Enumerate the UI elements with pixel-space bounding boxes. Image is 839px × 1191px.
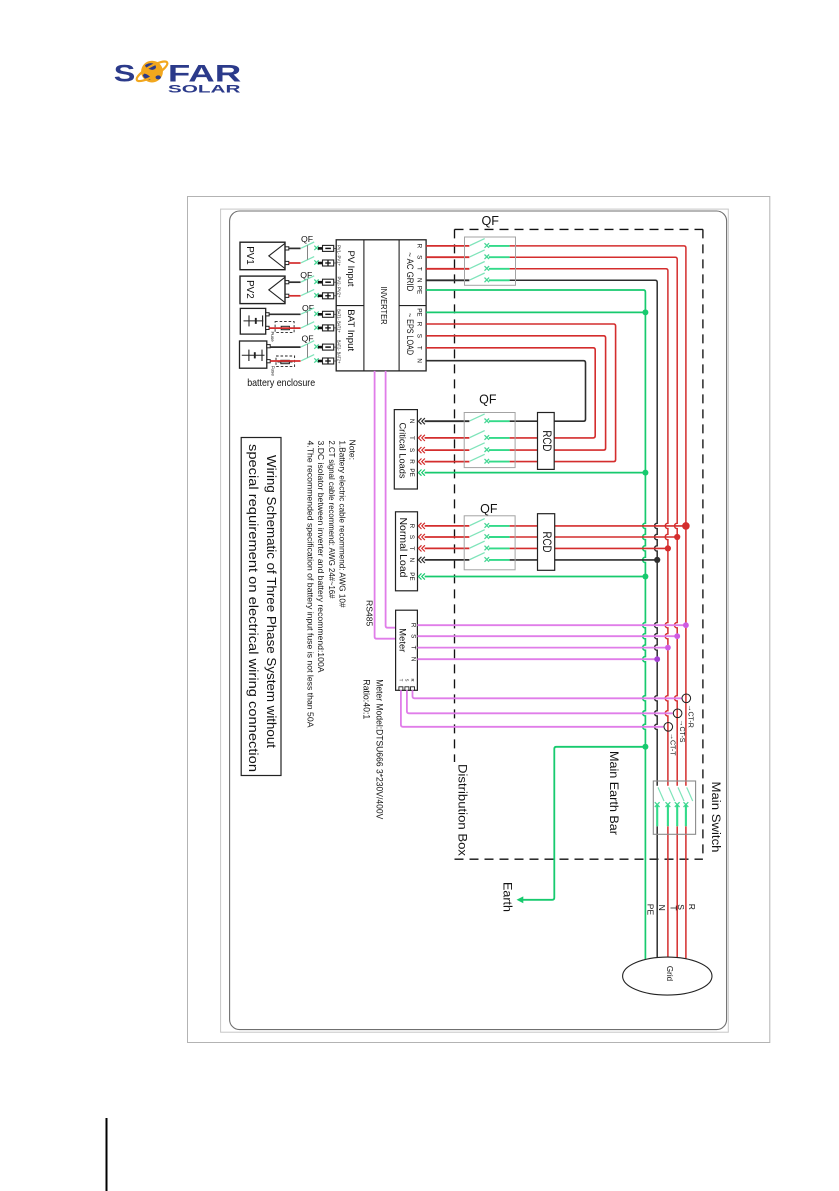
svg-text:Grid: Grid [665, 966, 674, 981]
junction normal N [654, 557, 660, 563]
wire N breaker to grid bus [510, 280, 658, 957]
svg-text:R: R [416, 244, 423, 249]
svg-text:PV1- PV1+: PV1- PV1+ [337, 245, 342, 266]
drawing rounded border [230, 211, 727, 1030]
wire T breaker to grid bus [510, 269, 668, 957]
wire normal R to grid bus [510, 525, 686, 527]
junction normal T [665, 545, 671, 551]
svg-text:PV2- PV2+: PV2- PV2+ [337, 277, 342, 298]
svg-text:1.Battery electric cable recom: 1.Battery electric cable recommend: AWG … [337, 441, 347, 608]
wire normal S to grid bus [510, 536, 678, 538]
PV panel PV1 [240, 242, 285, 270]
meter box [396, 610, 418, 690]
wire normal T to grid bus [510, 547, 668, 549]
grid wire labels R S T N PE [646, 904, 697, 916]
main switch box [653, 781, 695, 834]
terminal BAT2- [318, 344, 336, 350]
svg-text:→CT-S: →CT-S [678, 720, 685, 743]
svg-text:R: R [410, 623, 417, 628]
terminal PV1- [318, 245, 336, 251]
svg-text:Ratio:40:1: Ratio:40:1 [361, 679, 371, 719]
svg-text:Distribution Box: Distribution Box [456, 764, 468, 856]
svg-text:R: R [410, 678, 415, 681]
junction normal R [682, 522, 690, 530]
wire RS485 B [375, 371, 396, 639]
svg-text:Fuse: Fuse [270, 332, 275, 343]
svg-text:Meter: Meter [397, 628, 408, 652]
svg-text:BAT Input: BAT Input [345, 309, 356, 351]
svg-text:Meter Model:DTSU666 3*230V/400: Meter Model:DTSU666 3*230V/400V [374, 679, 384, 819]
svg-text:PV2: PV2 [244, 280, 255, 299]
svg-text:2.CT signal cable recommend: A: 2.CT signal cable recommend: AWG 24#~16# [327, 441, 337, 599]
terminal PV1+ [318, 260, 336, 266]
svg-text:Earth: Earth [501, 882, 513, 912]
wire normal S with arrow [418, 534, 425, 540]
svg-text:T: T [398, 679, 403, 682]
meter pin labels R S T N [410, 623, 417, 662]
wire T inverter to breaker [426, 268, 469, 270]
svg-text:Main Earth Bar: Main Earth Bar [607, 751, 621, 835]
wire critical S with arrow [418, 447, 425, 453]
terminal PV2+ [318, 293, 336, 299]
svg-text:BAT1- BAT1+: BAT1- BAT1+ [337, 309, 342, 333]
svg-text:T: T [416, 267, 423, 271]
wire EPS T to critical loads [426, 348, 595, 438]
switch QF2 (PV2 isolator) [289, 276, 322, 298]
terminal BAT2+ [318, 358, 336, 364]
svg-text:T: T [410, 646, 417, 650]
svg-text:Fuse: Fuse [271, 366, 276, 377]
svg-text:QF: QF [481, 214, 499, 228]
load box Normal Load [396, 512, 418, 591]
svg-text:QF: QF [300, 270, 312, 280]
svg-text:QF: QF [480, 502, 498, 516]
battery B1 [240, 308, 269, 334]
inverter pin labels AC GRID R S T N PE [416, 244, 423, 295]
junction meter N [654, 656, 660, 662]
wire EPS N to critical loads [426, 361, 585, 422]
inverter pin labels PV/BAT [337, 245, 342, 364]
terminal BAT1+ [318, 325, 336, 331]
junction critical PE [642, 470, 648, 476]
svg-text:N: N [416, 358, 423, 363]
svg-text:SOLAR: SOLAR [168, 83, 241, 95]
page bottom margin mark [106, 1118, 108, 1191]
svg-text:N: N [416, 278, 423, 283]
wire S inverter to breaker [426, 256, 469, 258]
wire critical N with arrow [418, 418, 425, 424]
svg-text:RS485: RS485 [365, 600, 375, 626]
earth arrow head [517, 896, 524, 903]
svg-text:S: S [408, 448, 415, 452]
svg-text:~ EPS LOAD: ~ EPS LOAD [405, 313, 415, 355]
svg-text:S: S [416, 334, 423, 338]
svg-text:PE: PE [646, 904, 656, 916]
switch QF4 (battery2 isolator) [270, 341, 322, 363]
junction meter R [683, 622, 689, 628]
svg-text:special requirement on electri: special requirement on electrical wiring… [246, 444, 261, 772]
main switch poles [655, 787, 693, 826]
RCD (normal loads) [538, 514, 555, 571]
svg-text:S: S [408, 535, 415, 539]
svg-text:S: S [416, 255, 423, 259]
svg-text:S: S [410, 634, 417, 638]
wire normal PE with arrow [418, 573, 425, 579]
logo SOFAR SOLAR [114, 58, 241, 95]
svg-text:S: S [404, 679, 409, 682]
breaker QF (normal loads) [464, 516, 515, 570]
current transformer CT-T [664, 723, 673, 732]
wire EPS PE to earth bus [426, 311, 645, 313]
breaker QF (critical loads) [464, 413, 515, 468]
drawing middle frame [221, 209, 729, 1032]
svg-text:R: R [408, 524, 415, 529]
terminal PV2- [318, 279, 336, 285]
wire meter T sense [417, 647, 668, 649]
wire N inverter to breaker [426, 279, 469, 281]
svg-text:N: N [408, 558, 415, 563]
svg-text:RCD: RCD [540, 532, 552, 553]
svg-text:R: R [687, 904, 697, 910]
terminal BAT1- [318, 311, 336, 317]
svg-text:PE: PE [416, 286, 423, 294]
svg-text:PV1: PV1 [244, 246, 255, 265]
wire normal T with arrow [418, 545, 425, 551]
svg-text:PE: PE [408, 468, 415, 476]
svg-text:Wiring Schematic of Three Phas: Wiring Schematic of Three Phase System w… [264, 455, 279, 748]
RCD (critical loads) [538, 413, 555, 470]
inverter pin labels EPS PE R S T N [416, 308, 423, 363]
svg-text:PE: PE [408, 572, 415, 580]
svg-text:Normal Load: Normal Load [397, 518, 408, 578]
title box [241, 438, 281, 776]
svg-text:N: N [410, 657, 417, 662]
wire CT-S [407, 690, 673, 713]
wire meter S sense [417, 635, 677, 637]
inverter U1 box [336, 240, 426, 371]
wire CT-T [401, 690, 664, 727]
svg-text:T: T [408, 436, 415, 440]
svg-text:3.DC isolator between inverter: 3.DC isolator between inverter and batte… [316, 441, 326, 673]
switch QF1 (PV1 isolator) [289, 242, 322, 265]
wire normal R with arrow [418, 523, 425, 529]
junction meter S [674, 633, 680, 639]
wire main earth bar to earth [522, 747, 646, 900]
svg-text:R: R [416, 322, 423, 327]
grid symbol [623, 957, 712, 995]
wire R inverter to breaker [426, 245, 469, 247]
wire EPS R to critical loads [426, 324, 615, 462]
wire PE inverter to grid bus [426, 290, 645, 960]
junction normal PE [642, 574, 648, 580]
current transformer CT-S [673, 709, 682, 718]
svg-text:Note:: Note: [348, 440, 358, 461]
svg-text:T: T [416, 346, 423, 350]
svg-text:T: T [408, 546, 415, 550]
breaker QF (AC grid) [465, 237, 516, 285]
svg-text:PV Input: PV Input [345, 251, 356, 287]
svg-text:Main Switch: Main Switch [709, 782, 721, 853]
PV panel PV2 [240, 276, 285, 304]
wire critical T with arrow [418, 435, 425, 441]
junction EPS PE [642, 309, 648, 315]
wire EPS S to critical loads [426, 336, 605, 450]
svg-text:BAT2- BAT2+: BAT2- BAT2+ [337, 340, 342, 364]
fuse F2 [276, 356, 295, 367]
svg-text:N: N [657, 905, 667, 911]
svg-text:T: T [669, 905, 679, 910]
svg-text:→CT-T: →CT-T [669, 733, 676, 756]
wire critical R with arrow [418, 459, 425, 465]
svg-text:R: R [408, 459, 415, 464]
current transformer CT-R [682, 694, 691, 703]
svg-text:QF: QF [479, 393, 497, 407]
svg-text:PE: PE [416, 308, 423, 316]
svg-text:S: S [114, 62, 136, 88]
wire normal N to grid bus [510, 559, 658, 561]
svg-text:→CT-R: →CT-R [687, 705, 694, 728]
switch QF3 (battery1 isolator) [269, 308, 322, 330]
Normal Load pin labels [408, 524, 415, 581]
svg-text:Critical Loads: Critical Loads [398, 423, 408, 480]
Critical Loads pin labels [408, 419, 415, 477]
fuse F1 [275, 322, 294, 333]
wire RS485 A [386, 371, 396, 628]
wire CT-R [413, 690, 682, 698]
battery B2 [240, 341, 271, 368]
svg-text:4.The recommended specificatio: 4.The recommended specification of batte… [305, 441, 315, 728]
wire normal N with arrow [418, 557, 425, 563]
wire meter R sense [417, 624, 686, 626]
PV1 terminal stubs [285, 247, 289, 250]
svg-text:RCD: RCD [540, 430, 552, 451]
svg-text:~ AC GRID: ~ AC GRID [405, 252, 415, 291]
junction meter T [665, 645, 671, 651]
load box Critical Loads [394, 410, 417, 489]
note text [305, 440, 357, 728]
svg-text:battery enclosure: battery enclosure [247, 378, 315, 389]
wire meter N sense [417, 658, 657, 660]
wire critical PE with arrow [418, 470, 425, 476]
PV2 terminal stubs [285, 281, 289, 284]
junction main earth bar [642, 744, 648, 750]
junction normal S [674, 534, 680, 540]
wire R breaker to grid bus [510, 246, 686, 959]
svg-text:N: N [408, 419, 415, 424]
svg-text:INVERTER: INVERTER [379, 287, 389, 325]
distribution box dashed border [455, 229, 703, 859]
page outer frame [188, 197, 770, 1043]
meter bottom pins [398, 678, 415, 690]
wire S breaker to grid bus [510, 257, 678, 958]
